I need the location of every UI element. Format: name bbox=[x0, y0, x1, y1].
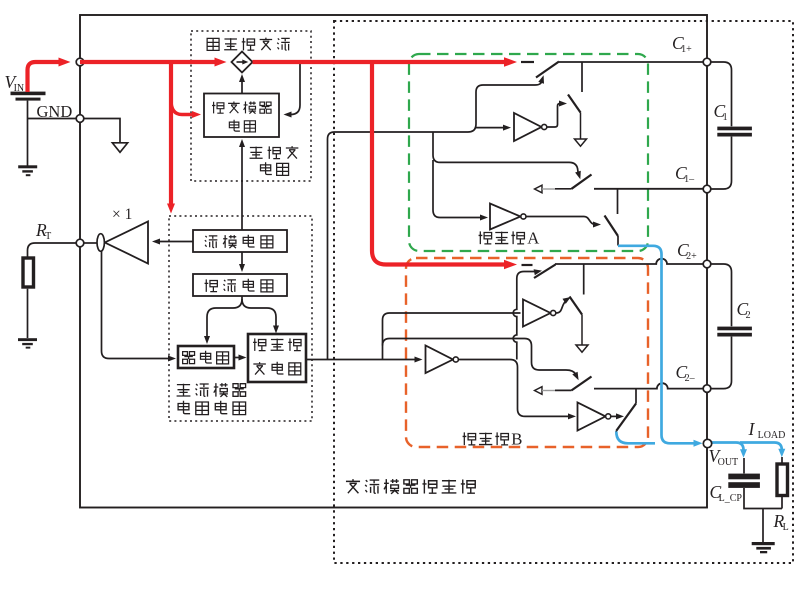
svg-text:B: B bbox=[511, 429, 522, 448]
svg-text:2+: 2+ bbox=[686, 251, 697, 262]
svg-text:T: T bbox=[45, 231, 51, 242]
svg-text:A: A bbox=[527, 228, 539, 247]
svg-text:1–: 1– bbox=[684, 174, 695, 185]
svg-text:× 1: × 1 bbox=[112, 206, 132, 223]
svg-text:2: 2 bbox=[746, 310, 751, 321]
svg-text:L: L bbox=[783, 522, 789, 533]
svg-text:OUT: OUT bbox=[718, 457, 739, 468]
svg-text:L_CP: L_CP bbox=[719, 493, 743, 504]
svg-text:LOAD: LOAD bbox=[758, 430, 786, 441]
svg-text:1: 1 bbox=[723, 112, 728, 123]
svg-text:I: I bbox=[748, 419, 756, 439]
svg-text:2–: 2– bbox=[685, 373, 696, 384]
svg-text:1+: 1+ bbox=[681, 44, 692, 55]
svg-text:IN: IN bbox=[14, 83, 25, 94]
svg-text:GND: GND bbox=[37, 102, 73, 121]
